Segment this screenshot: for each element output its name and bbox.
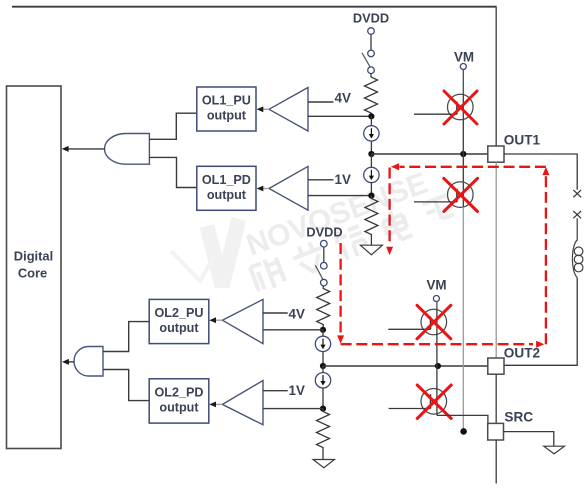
svg-text:SRC: SRC [504,410,533,425]
wire VM2 to transistor Q3 [436,302,438,311]
svg-text:Digital: Digital [14,249,53,264]
OL1_PU output box [197,87,256,131]
wire AND2 output to digital core [68,361,75,363]
comparator U5 (1V, OL2_PD) [209,381,263,425]
comparator U2 (4V, OL1_PU) [257,88,308,132]
AND gate U1 (mirrored, flat side right) [105,134,150,165]
current source I1 [364,126,379,141]
svg-text:OUT2: OUT2 [504,345,541,360]
wire OUT1 rail [371,153,487,155]
wire node B to current source I2 [370,154,372,168]
resistor R1 (branch 1 upper) [365,74,378,117]
svg-text:OL2_PU: OL2_PU [155,306,204,320]
red cross over Q2 [444,178,478,211]
wire comp U5 sense input to node F [263,408,323,410]
svg-text:output: output [159,401,199,415]
comparator U4 (4V, OL2_PU) [209,299,263,343]
break mark x1 on load wire [573,190,581,197]
wire SRC to ground [504,432,554,447]
wire current source I1 to node B [370,141,372,154]
transistor Q3 [388,309,446,335]
wire OUT2 pad to SRC pad [495,374,497,423]
red dashed current path: DVDD2 down segment [339,243,341,335]
OL2_PD output box [149,379,209,423]
wire Q4 source to SRC pad [437,415,488,423]
wire DVDD2 to switch [323,247,325,262]
transistor Q1 [414,94,473,120]
svg-text:1V: 1V [335,172,351,187]
wire current source I4 to node F [322,388,324,409]
watermark logo N [207,219,239,286]
red cross over Q3 [417,305,451,339]
AND gate U6 (mirrored, flat side right) [74,347,103,377]
VM terminal circle (branch 1) [460,64,466,70]
red arrow down (middle segment) [386,247,393,255]
red dashed current path: bottom segment [341,343,533,345]
digital core box [7,86,62,449]
VM terminal circle (branch 2) [433,296,439,302]
wire VM to transistor Q1 [462,70,464,96]
svg-text:DVDD: DVDD [353,11,389,26]
wire OUT2 rail [323,365,488,367]
wire OUT1 to load [504,154,577,190]
current source I4 [315,373,330,388]
wire below SRC pad [495,440,497,484]
wire inductor to OUT2 [504,278,577,366]
OL1_PD output box [197,166,256,210]
svg-text:output: output [207,109,247,123]
node E (OUT2 rail) [320,363,326,369]
red arrow up (right segment) [542,167,549,175]
svg-text:Core: Core [18,266,47,281]
wire from top rail down to OUT1 [495,7,497,146]
svg-text:4V: 4V [289,306,305,321]
wire between break and inductor [576,218,578,240]
node on OUT1 rail at VM branch [460,151,466,157]
wire AND2 input2 to OL2_PD box [103,370,149,401]
red cross over Q4 [417,385,451,419]
wire comp U5 ref input [263,390,288,392]
wire Q2 drain stub (gray) [462,207,464,428]
wire OUT1 to OUT2 (gray) [495,162,497,358]
OL2_PU output box [149,299,209,343]
svg-text:OL2_PD: OL2_PD [155,386,204,400]
wire node D to current source I3 [322,330,324,337]
wire current source I3 to node E [322,352,324,367]
red dashed current path: middle down segment [388,168,390,245]
watermark NOVOSENSE text [242,167,432,263]
ground (SRC) [544,446,565,454]
red dashed current path: top segment [400,166,546,168]
SRC pad [488,423,504,440]
node dot at end of gray stub [460,428,467,435]
red cross over Q1 [444,91,477,124]
break mark x2 on load wire [573,211,581,218]
svg-text:VM: VM [426,278,446,293]
wire DVDD to switch [370,34,372,50]
watermark logo left leg [171,251,214,281]
current source I2 [364,167,379,182]
wire node E to current source I4 [322,366,324,373]
switch S1 (branch 1) [362,50,374,73]
DVDD terminal circle (branch 1) [368,28,375,35]
svg-text:4V: 4V [335,90,351,105]
wire comp U4 ref input [263,312,288,314]
node D (comp U4 sense) [320,327,326,333]
OUT1 pad [488,146,504,162]
wire AND1 output to digital core [68,148,106,150]
node on OUT2 rail at VM branch [435,363,441,369]
wire comp U2 sense input to node [308,115,371,117]
wire comp U3 ref input [308,179,334,181]
svg-text:output: output [159,321,199,335]
svg-text:OL1_PU: OL1_PU [202,94,251,108]
arrowhead into digital core (OL2) [62,359,69,365]
transistor Q4 [389,366,447,415]
red arrow down (left segment) [337,335,344,343]
wire comp U3 sense input to node [308,195,371,197]
DVDD terminal circle (branch 2) [321,240,328,247]
wire comp U2 ref input [308,101,334,103]
OUT2 pad [488,358,504,374]
svg-text:output: output [207,188,247,202]
svg-text:VM: VM [454,50,474,65]
wire node A to current source [370,116,372,126]
resistor R2 (branch 1 lower) [365,196,378,245]
svg-text:1V: 1V [289,383,305,398]
ground (branch 2) [313,460,334,468]
svg-text:OL1_PD: OL1_PD [202,173,251,187]
current source I3 [315,336,330,351]
wire Q3 to OUT2 rail [436,334,438,366]
wire Q1 to Q2 [462,119,464,183]
node F (comp U5 sense) [320,406,326,412]
wire current source I2 to node C [370,182,372,195]
switch S2 (branch 2) [315,262,327,286]
comparator U3 (1V, OL1_PD) [257,166,308,210]
node B (OUT1 rail) [368,151,374,157]
red dashed current path: right up segment [545,176,547,345]
node A (comp U2 sense) [368,113,374,119]
top rail wire [12,6,497,8]
wire comp U4 sense input to node D [263,329,323,331]
red arrow right (bottom segment) [536,341,544,348]
arrowhead into digital core (OL1) [62,146,69,152]
red arrow left (top segment) [391,163,399,170]
node C (comp U3 sense) [368,193,374,199]
wire AND1 input2 to OL1_PD box [149,157,196,187]
wire AND1 input1 to OL1_PU box [149,113,196,139]
wire AND2 input1 to OL2_PU box [103,322,149,352]
svg-text:OUT1: OUT1 [504,132,541,147]
resistor R4 (branch 2 lower) [317,409,330,460]
watermark chinese characters [249,191,455,294]
inductor L1 (motor winding) [572,240,582,278]
ground (branch 1) [360,245,382,255]
resistor R3 (branch 2 upper) [317,286,330,330]
svg-text:DVDD: DVDD [306,224,342,239]
transistor Q2 [414,182,473,208]
